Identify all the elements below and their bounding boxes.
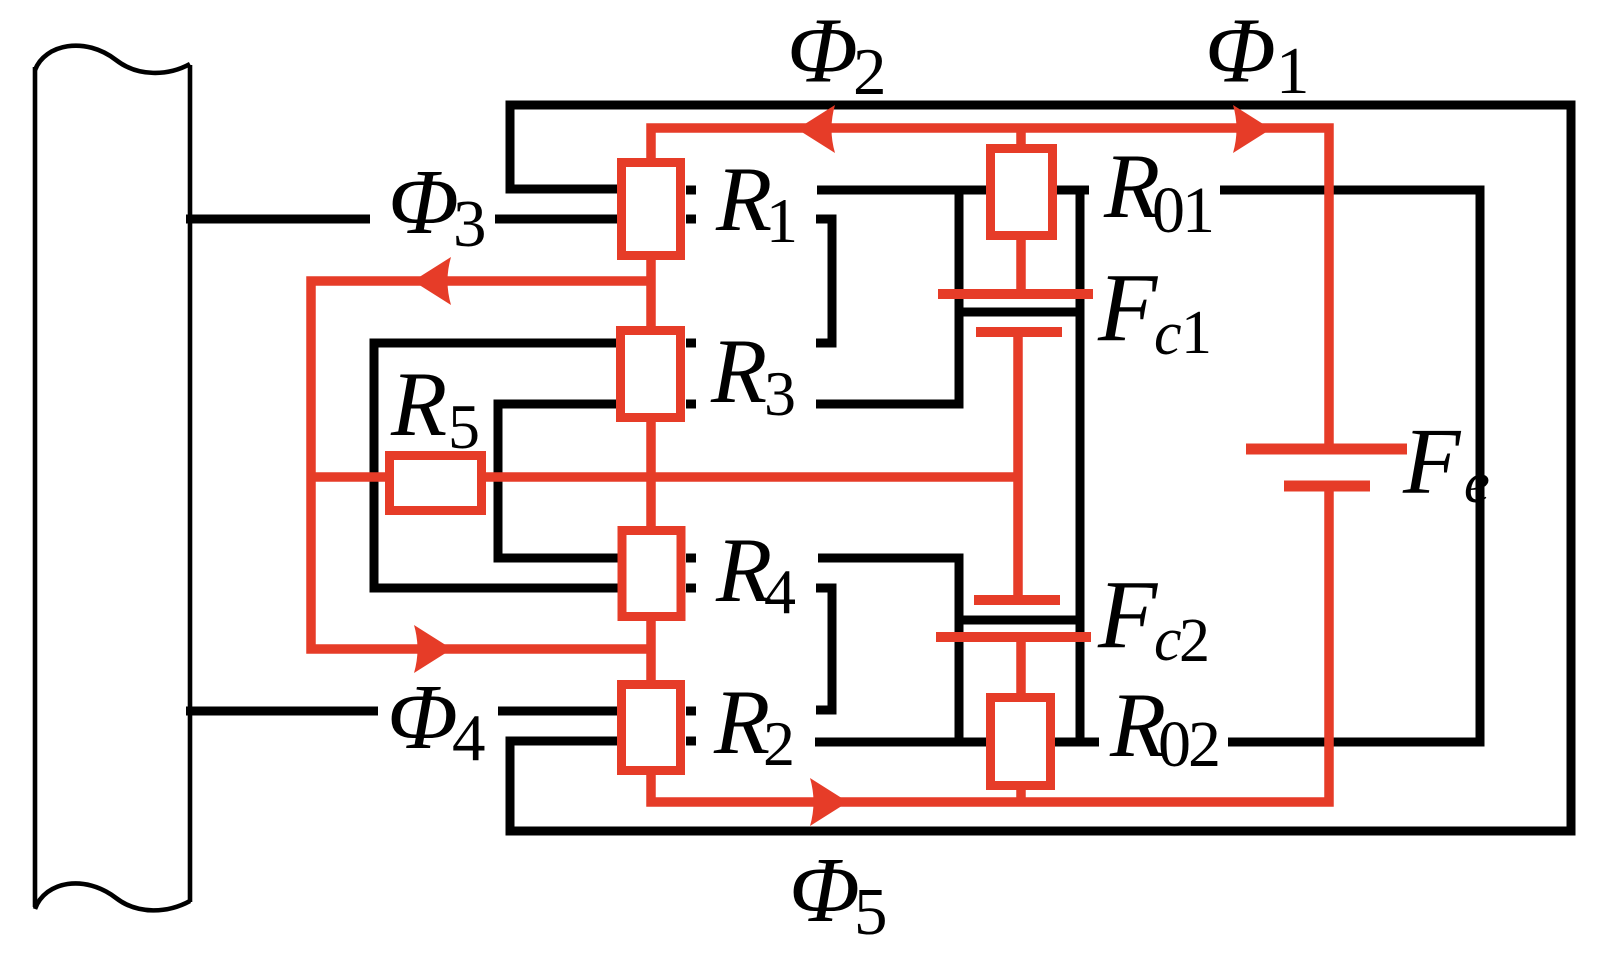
Fc1 gap pole line (black, y=312) <box>959 308 1080 317</box>
bracket between R1 and R3 wires <box>816 219 832 343</box>
label Fc1 <box>1097 254 1212 368</box>
R5 outer C-box (black, R3 top wire to R4 bottom wire) <box>374 343 618 588</box>
resistor R1 <box>622 163 681 256</box>
red flux path phi1/phi2 top line with corner into R1 and corner to Fe <box>651 128 1329 449</box>
Fe mmf source long plate <box>1246 444 1407 455</box>
red R5 branch line y=477 <box>311 472 1018 482</box>
Fc2 gap long plate (red) <box>936 632 1091 642</box>
label R5 <box>390 353 480 462</box>
resistor R2 <box>622 685 681 771</box>
arrow right on phi3 loop lower line <box>414 625 452 673</box>
red phi3 left loop <box>311 281 655 649</box>
svg-text:Φ: Φ <box>387 666 458 769</box>
svg-text:R: R <box>710 320 767 422</box>
wire red stub R3 to R4 <box>646 421 656 526</box>
Fc2 gap pole line (black, y=620) <box>959 616 1080 625</box>
tick stubs right of R2 <box>686 711 696 741</box>
label phi4 <box>387 666 486 775</box>
svg-text:c: c <box>1154 300 1182 368</box>
svg-text:2: 2 <box>853 35 887 109</box>
wire red stub R01 to Fc1 plate <box>1016 238 1026 294</box>
label Fc2 <box>1097 561 1210 675</box>
label phi2 <box>787 0 887 109</box>
R5 inner C-box (black, R3 second wire to R4 first wire) <box>498 404 618 558</box>
wire red stub Fc2 plate to R02 <box>1016 637 1026 695</box>
wire phi3 from core to R1 (black, y=219) <box>186 215 618 224</box>
wire R1 to R01 (black, y=190) <box>817 186 1089 195</box>
svg-text:c: c <box>1154 606 1182 674</box>
svg-text:e: e <box>1464 450 1490 515</box>
svg-text:2: 2 <box>763 708 795 779</box>
label phi1 <box>1205 0 1310 108</box>
wire red stub top line to R01 <box>1016 128 1026 146</box>
label phi3 <box>388 151 487 261</box>
label R3 <box>710 320 796 429</box>
svg-text:Φ: Φ <box>787 0 858 103</box>
svg-text:4: 4 <box>452 701 486 775</box>
center black vertical x=1080 <box>1076 186 1085 746</box>
svg-text:5: 5 <box>854 875 888 949</box>
tick stubs right of R3 <box>686 343 696 404</box>
label R01 <box>1103 135 1212 247</box>
resistor R5 <box>390 456 482 511</box>
svg-text:F: F <box>1402 410 1462 514</box>
svg-text:F: F <box>1097 561 1159 668</box>
svg-text:R: R <box>715 148 772 250</box>
wire phi4 from core to R2 (black, y=711) <box>186 707 620 716</box>
svg-text:1: 1 <box>1181 299 1212 367</box>
svg-text:4: 4 <box>764 556 796 627</box>
svg-text:R: R <box>390 353 447 455</box>
bracket between R4 and R2 wires <box>816 588 832 710</box>
svg-text:Φ: Φ <box>388 151 459 254</box>
wire red stub R02 to bottom line <box>1016 787 1026 802</box>
red center vertical between Fc1 and Fc2 <box>1013 332 1023 600</box>
label R1 <box>715 148 798 256</box>
svg-text:01: 01 <box>1152 174 1212 247</box>
svg-text:F: F <box>1097 254 1159 361</box>
outer black loop (phi2 top / phi1 right / phi5 bottom) <box>510 105 1571 831</box>
resistor R4 <box>622 531 681 617</box>
Fc1 gap long plate (red) <box>938 289 1093 299</box>
svg-text:1: 1 <box>1276 34 1310 108</box>
resistor R02 <box>991 698 1051 786</box>
wire R3 to Fc1 pole (black, y=404 then up at x=959) <box>816 186 959 404</box>
Fc2 gap short plate (red) <box>974 595 1060 605</box>
Fe mmf source short plate <box>1284 481 1370 492</box>
tick stubs right of R1 <box>686 190 696 219</box>
label R2 <box>713 671 795 779</box>
label phi5 <box>789 839 888 949</box>
tick stubs right of R4 <box>686 558 696 588</box>
wire red stub R1 to R3 <box>646 260 656 326</box>
svg-text:5: 5 <box>448 391 480 462</box>
wire inner black loop R01 to R02 (right side) <box>1220 190 1480 742</box>
arrow left on top line (phi2 direction) <box>797 105 835 153</box>
arrow right on phi5 bottom line <box>810 778 848 826</box>
wire red stub R4 to R2 <box>646 621 656 680</box>
red phi5 bottom line <box>651 486 1329 802</box>
svg-text:2: 2 <box>1179 607 1210 675</box>
svg-text:1: 1 <box>766 185 798 256</box>
resistor R3 <box>621 331 681 418</box>
core yoke bar (left, with wavy broken ends) <box>35 46 190 911</box>
svg-text:3: 3 <box>453 187 487 261</box>
label Fe <box>1402 410 1490 515</box>
label R02 <box>1109 674 1218 781</box>
svg-text:Φ: Φ <box>1205 0 1276 103</box>
wire R4 to Fc2 pole (black, y=558 then down at x=959) <box>818 558 959 746</box>
svg-text:02: 02 <box>1158 708 1218 781</box>
Fc1 gap short plate (red) <box>976 327 1062 337</box>
arrow left on phi3 loop upper line <box>413 257 451 305</box>
wire R2 to R02 (black, y=742) <box>815 738 1099 747</box>
svg-text:R: R <box>713 671 770 773</box>
resistor R01 <box>991 149 1053 236</box>
svg-text:Φ: Φ <box>789 839 860 942</box>
label R4 <box>715 519 796 627</box>
svg-text:3: 3 <box>764 358 796 429</box>
arrow right on top line (phi1 direction) <box>1233 105 1271 153</box>
